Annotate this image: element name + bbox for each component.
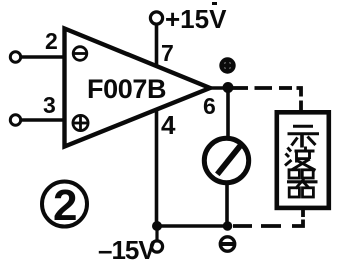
- input terminal pin 2: [10, 52, 20, 62]
- wire +15V down to op-amp top edge: [155, 24, 159, 67]
- bottom supply wire: [157, 224, 228, 228]
- wire op-amp output to node: [205, 86, 233, 90]
- wire meter down to bottom junction: [225, 182, 229, 226]
- oscilloscope label char QI (器): [287, 170, 318, 197]
- svg-text:+15V: +15V: [165, 4, 227, 34]
- svg-text:3: 3: [43, 92, 56, 118]
- wire pin2 to op-amp: [21, 55, 65, 59]
- speckle above +15V: [212, 2, 217, 5]
- svg-text:–15V: –15V: [98, 235, 156, 264]
- svg-text:F007B: F007B: [87, 74, 166, 104]
- +15V terminal: [150, 12, 162, 24]
- svg-text:4: 4: [161, 110, 176, 140]
- figure number circled 2: [42, 181, 87, 230]
- oscilloscope label char BO (波): [285, 147, 316, 171]
- svg-text:2: 2: [53, 181, 77, 230]
- op-amp U1 triangle: [65, 29, 211, 147]
- wire op-amp bottom edge down to -15V node: [155, 109, 159, 227]
- dashed wire bottom junction to oscilloscope bottom: [233, 209, 303, 226]
- svg-text:6: 6: [203, 93, 216, 119]
- dashed wire output node to oscilloscope top: [233, 88, 301, 110]
- oscilloscope label char SHI (示): [288, 126, 320, 147]
- meter M1: [204, 138, 248, 182]
- oscilloscope box: [277, 112, 329, 208]
- svg-text:2: 2: [45, 28, 58, 54]
- wire pin3 to op-amp: [21, 118, 65, 122]
- wire junction to -15V terminal: [155, 226, 158, 241]
- wire output node down to meter: [226, 88, 230, 140]
- minus polarity marker at bottom: [220, 237, 234, 251]
- plus polarity marker at output: [220, 58, 235, 73]
- bottom junction node: [223, 221, 233, 231]
- inverting input marker: [73, 47, 87, 61]
- non-inverting input marker: [73, 115, 88, 130]
- output node: [223, 82, 234, 93]
- node at -15V junction: [152, 221, 162, 231]
- -15V terminal: [151, 241, 162, 252]
- svg-text:7: 7: [161, 40, 174, 66]
- input terminal pin 3: [10, 115, 20, 125]
